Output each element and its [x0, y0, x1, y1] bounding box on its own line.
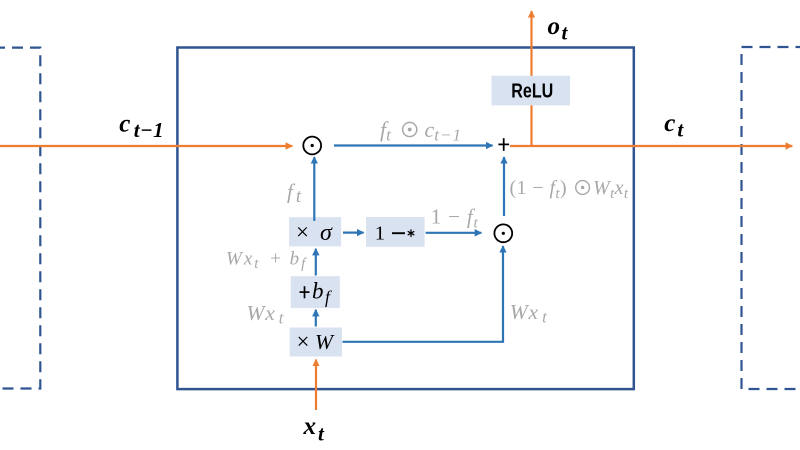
svg-text:ct: ct	[664, 110, 684, 141]
wire: blue node A to plus	[334, 144, 493, 146]
svg-text:×: ×	[296, 220, 309, 245]
ReLU box (covers orange wire)	[492, 76, 571, 106]
svg-text:(1 − ft): (1 − ft)	[510, 177, 568, 202]
left dashed cell box	[0, 48, 40, 389]
svg-text:W: W	[315, 330, 335, 354]
wire: blue node B up to plus	[503, 157, 505, 216]
op box: 1 minus asterisk	[366, 217, 425, 247]
svg-text:xt: xt	[303, 413, 326, 446]
svg-text:Wxt: Wxt	[510, 300, 548, 327]
svg-text:Wxt: Wxt	[247, 301, 285, 328]
svg-text:ct−1: ct−1	[425, 117, 462, 145]
node A: odot	[303, 137, 321, 155]
svg-text:ReLU: ReLU	[511, 80, 553, 103]
svg-text:ft: ft	[380, 117, 392, 145]
node: plus junction	[498, 143, 509, 145]
wire: blue x W box up to +b_f box	[315, 310, 317, 327]
svg-text:1: 1	[375, 223, 385, 245]
svg-text:ct−1: ct−1	[119, 111, 164, 142]
svg-text:Wtxt: Wtxt	[593, 177, 629, 202]
gate box: times sigma	[289, 217, 341, 246]
wire: blue +b_f box up to sigma box	[315, 249, 317, 276]
main cell box	[177, 48, 633, 390]
wire: orange up to o_t	[530, 11, 532, 146]
gate text: plus b_f	[300, 291, 310, 293]
svg-text:ft: ft	[287, 180, 302, 208]
svg-text:×: ×	[297, 329, 310, 354]
wire: orange input x_t from bottom	[315, 360, 317, 411]
svg-text:σ: σ	[320, 220, 333, 246]
gate box: plus b_f	[291, 276, 340, 308]
label (1-f_t) odot W_t x_t gray	[510, 177, 629, 202]
wire: blue 1-* box to node B	[426, 232, 482, 234]
wire: orange input c(t-1) from left	[0, 145, 292, 147]
wire: blue elbow from x W box to node B	[343, 246, 504, 342]
svg-text:1 − ft: 1 − ft	[431, 205, 479, 232]
label f_t odot c_(t-1) gray	[380, 117, 462, 145]
wire: orange output c_t to right	[510, 145, 792, 147]
node B: odot	[494, 224, 512, 242]
svg-text:Wxt + bf: Wxt + bf	[226, 249, 307, 273]
gate box: times W	[290, 328, 342, 357]
wire: blue sigma box up to node A	[313, 157, 315, 221]
right dashed cell box	[742, 47, 800, 389]
svg-text:ot: ot	[548, 13, 569, 44]
wire: blue sigma box to 1-* box	[343, 232, 364, 234]
